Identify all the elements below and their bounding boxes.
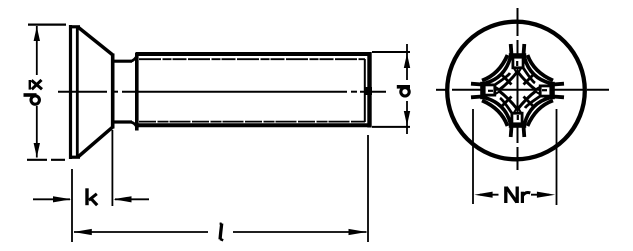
wire centerline side view [58,91,386,93]
dimension dk line lower [36,106,38,158]
head face outer line [69,25,72,159]
recess tip E [536,82,565,99]
vertical centerline front view [517,8,519,170]
neck bottom line [113,120,133,123]
label d [397,87,410,96]
dimension Nr line right [531,194,549,196]
end cap line [367,52,371,128]
dimension l arrow right [349,229,367,235]
recess tip S [509,109,526,138]
recess arcs NW [482,55,518,91]
thread runout bottom [131,122,138,128]
dimension d arrow down [404,111,410,125]
dimension l line right [233,231,367,233]
thread crest bottom [136,123,372,127]
dimension dk top extension line [28,24,66,26]
thread runout top [131,55,138,62]
label Nr [506,187,531,204]
thread root bottom [139,121,365,123]
cone bottom edge [79,127,113,156]
dimension dk line upper [36,26,38,75]
dimension dk bottom extension line [27,159,65,161]
cone top edge [79,28,113,55]
head bottom edge [69,156,80,159]
head circle front view [447,22,585,160]
thread start edge [135,53,139,131]
cross recess [471,44,564,137]
end chamfer line [364,59,366,122]
head top edge [69,25,80,28]
neck top line [113,60,133,63]
dimension l arrow left [74,229,92,235]
dimension d line upper [406,44,408,80]
dimension d arrow up [404,54,410,69]
recess arcs NE [518,55,554,91]
dimension l right extension line [367,135,369,242]
dimension d top extension line [372,51,410,53]
dimension k arrow right [53,196,71,202]
dimension dk arrow up [34,27,40,42]
recess arcs SW [482,91,518,127]
head face inner line [76,27,79,157]
thread root top [139,58,365,60]
dimension d line lower [406,101,408,134]
recess arcs SE [518,91,554,127]
thread crest top [136,52,372,56]
cone base edge [111,54,115,129]
dimension l line left [74,231,208,233]
dimension Nr line left [480,194,499,196]
dimension dk arrow down [34,143,40,157]
label dk [24,80,43,104]
dimension k line right [115,198,149,200]
end chamfer mark [365,87,372,95]
dimension Nr arrow left [474,192,492,198]
dimension k line left [33,198,70,200]
horizontal centerline front view [436,89,609,91]
label k [87,188,97,205]
recess tip N [509,44,526,73]
dimension k right extension line [111,130,113,206]
dimension k left extension line [71,169,73,242]
dimension Nr arrow right [537,192,555,198]
dimension Nr right extension line [556,109,558,205]
dimension Nr left extension line [472,109,474,204]
dimension k arrow left [113,196,131,202]
dimension d bottom extension line [372,126,410,128]
recess tip W [471,82,500,99]
label l [220,223,224,240]
